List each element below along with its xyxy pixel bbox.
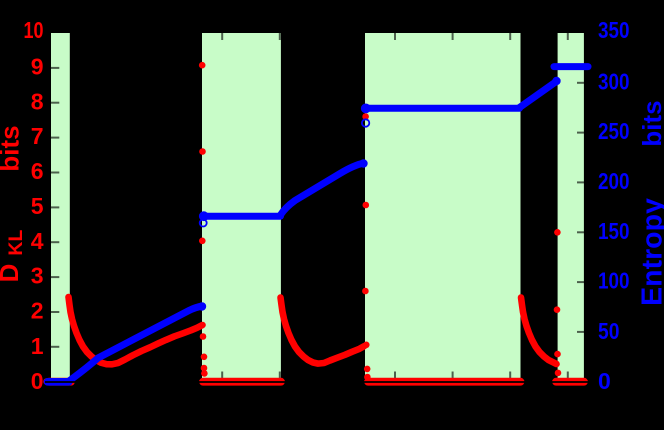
svg-text:350: 350 <box>598 17 630 43</box>
svg-text:50: 50 <box>598 318 620 344</box>
svg-text:10: 10 <box>24 17 44 43</box>
svg-text:4: 4 <box>31 228 44 254</box>
svg-text:bits: bits <box>0 125 25 171</box>
svg-text:bits: bits <box>637 100 664 146</box>
svg-text:250: 250 <box>598 118 630 144</box>
svg-text:6: 6 <box>31 158 44 184</box>
svg-text:2: 2 <box>31 298 44 324</box>
svg-text:9: 9 <box>31 54 44 80</box>
svg-text:0: 0 <box>31 368 44 394</box>
svg-text:8: 8 <box>31 88 44 114</box>
svg-text:5: 5 <box>31 193 44 219</box>
svg-text:DKL: DKL <box>0 230 27 283</box>
svg-text:150: 150 <box>598 218 630 244</box>
svg-text:7: 7 <box>31 123 44 149</box>
svg-text:Entropy: Entropy <box>637 198 664 306</box>
svg-text:3: 3 <box>31 263 44 289</box>
svg-text:300: 300 <box>598 68 630 94</box>
svg-text:1: 1 <box>31 333 44 359</box>
svg-text:200: 200 <box>598 168 630 194</box>
svg-text:0: 0 <box>598 368 611 394</box>
svg-text:100: 100 <box>598 268 630 294</box>
